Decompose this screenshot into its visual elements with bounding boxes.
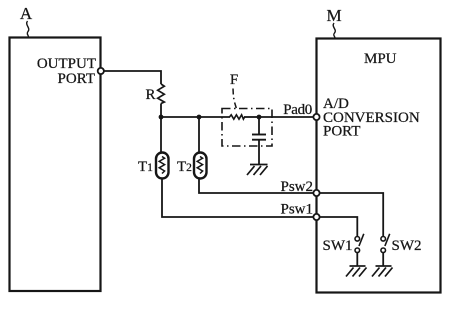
svg-text:T2: T2 [177,159,192,175]
svg-text:Psw1: Psw1 [280,202,313,218]
resistor inside F [230,115,245,119]
terminal Psw1 [313,214,319,220]
wire: output port to resistor R [104,71,161,84]
wire: node N2 down to T2 [198,117,200,153]
svg-text:Psw2: Psw2 [280,179,313,195]
svg-text:R: R [145,87,155,103]
wire: filter resistor to node N3 [244,116,259,118]
block A box [10,38,101,292]
svg-text:SW1: SW1 [323,238,353,254]
svg-text:M: M [326,6,341,25]
svg-text:MPU: MPU [364,51,397,67]
thermistor T2 [194,153,207,179]
wire: T2 bottom to Psw2 [199,179,314,194]
ground below SW2 [372,266,393,277]
node N1 junction dot [159,115,164,120]
wire: node N3 down to capacitor [258,117,260,135]
svg-text:PORT: PORT [323,124,360,140]
terminal Psw2 [313,190,319,196]
wire: Psw2 to SW2 inside MPU [320,193,384,236]
terminal Pad0 [313,114,319,120]
wire: node N2 to filter resistor [199,116,230,118]
svg-text:PORT: PORT [58,71,95,87]
wire: node N1 to node N2 [161,116,199,118]
svg-text:SW2: SW2 [392,238,422,254]
svg-text:F: F [230,72,238,88]
switch SW1 [355,234,364,253]
resistor R [158,84,165,104]
ground below F [247,165,268,176]
svg-text:OUTPUT: OUTPUT [37,56,96,72]
terminal: OUTPUT PORT pin [98,68,104,74]
capacitor inside F [252,134,266,136]
wire: Psw1 to SW1 inside MPU [320,217,358,236]
wire: R bottom to node N1 [160,104,162,118]
leader (dash-dot) for F [233,89,236,109]
switch SW2 [381,234,390,253]
node N3 junction dot [257,115,262,120]
thermistor T1 [156,153,169,179]
wire: SW2 to ground [382,253,384,266]
svg-text:T1: T1 [138,159,153,175]
wire: SW1 to ground [356,253,358,266]
ground below SW1 [346,266,367,277]
wire: T1 bottom to Psw1 [162,179,314,218]
filter F dash-dot box [222,109,272,147]
wire: capacitor bottom to ground [258,140,260,165]
svg-text:Pad0: Pad0 [283,102,312,118]
leader squiggle for A [27,21,29,37]
node N2 junction dot [197,115,202,120]
wire: node N1 down to T1 [160,117,162,153]
wire: node N3 to Pad0 [259,116,314,118]
svg-text:A: A [20,4,33,23]
block M (MPU) box [317,39,441,293]
leader squiggle for M [333,23,335,38]
